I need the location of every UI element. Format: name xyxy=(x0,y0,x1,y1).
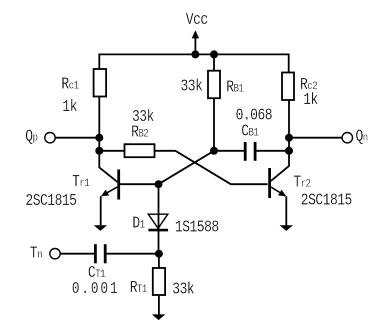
resistor Rc1 xyxy=(94,69,107,97)
wire node B to CB1 xyxy=(214,150,244,152)
terminal Qn xyxy=(342,133,352,143)
wire CB1 to Qn node xyxy=(257,150,290,152)
svg-text:2SC1815: 2SC1815 xyxy=(301,192,352,210)
transistor Tr2 xyxy=(270,168,287,198)
ground Tr1 emitter xyxy=(94,225,107,231)
svg-text:Qn: Qn xyxy=(356,128,369,146)
ground Tr2 emitter xyxy=(280,225,293,231)
terminal Tn xyxy=(50,249,60,259)
svg-text:RB2: RB2 xyxy=(131,124,148,142)
wire Rc1 bottom to Qp node xyxy=(98,97,100,151)
wire top rail xyxy=(99,54,288,72)
capacitor CB1 xyxy=(245,142,255,161)
svg-text:1k: 1k xyxy=(62,99,77,117)
svg-text:2SC1815: 2SC1815 xyxy=(25,193,76,211)
svg-text:D1: D1 xyxy=(132,215,145,233)
node RB1 top junction dot xyxy=(210,50,218,58)
svg-text:33k: 33k xyxy=(181,78,203,96)
resistor Rc2 xyxy=(282,73,294,101)
wire RB2 right diagonal to Tr2 base xyxy=(155,151,268,184)
svg-text:Qp: Qp xyxy=(25,128,38,146)
svg-text:33k: 33k xyxy=(172,281,194,299)
node Qn junction dot xyxy=(285,134,293,142)
wire RB1 top xyxy=(213,54,215,70)
svg-text:CB1: CB1 xyxy=(241,123,258,141)
svg-text:1k: 1k xyxy=(303,92,318,110)
svg-text:Tr1: Tr1 xyxy=(72,174,89,192)
wire node A to D1 xyxy=(158,184,160,230)
Vcc power arrow xyxy=(192,30,199,38)
wire Tr1 emitter to ground xyxy=(100,196,102,225)
wire Tr2 emitter to ground xyxy=(285,196,287,225)
wire Tn to CT1 xyxy=(61,253,95,255)
wire node A to node B cross-coupling xyxy=(159,151,215,184)
resistor RB2 xyxy=(125,144,155,157)
wire Rc2 bottom xyxy=(288,100,290,151)
wire Tr1 base xyxy=(120,183,159,185)
wire CT1 to node D xyxy=(107,253,159,255)
svg-text:1S1588: 1S1588 xyxy=(175,219,219,237)
svg-text:0.001: 0.001 xyxy=(72,281,120,299)
node CB1 junction dot xyxy=(285,147,293,155)
resistor RT1 xyxy=(153,268,165,295)
svg-text:Tn: Tn xyxy=(30,245,43,263)
node Qp junction dot xyxy=(95,134,103,142)
node RB2 junction dot xyxy=(95,147,103,155)
wire Qp to node xyxy=(56,137,100,139)
wire Tr1 collector xyxy=(99,151,117,182)
svg-text:RB1: RB1 xyxy=(226,79,243,97)
svg-text:Rc1: Rc1 xyxy=(61,76,78,94)
wire Tr2 collector xyxy=(271,151,289,181)
resistor RB1 xyxy=(208,71,220,99)
wire RB2 left xyxy=(99,150,124,152)
wire node D to RT1 xyxy=(158,254,160,268)
ground RT1 xyxy=(152,314,165,320)
transistor Tr1 xyxy=(101,170,119,200)
node B junction dot xyxy=(210,147,218,155)
capacitor CT1 xyxy=(95,244,105,263)
svg-text:Tr2: Tr2 xyxy=(293,174,310,192)
wire RB1 bottom to node B xyxy=(213,98,215,151)
diode D1 xyxy=(148,214,168,230)
node A junction dot xyxy=(155,180,163,188)
svg-text:Vcc: Vcc xyxy=(186,12,208,30)
node Vcc junction dot xyxy=(191,50,199,58)
wire RT1 bottom to ground xyxy=(158,295,160,315)
wire D1 cathode to node D xyxy=(158,230,160,254)
wire Qn node to terminal xyxy=(289,137,342,139)
wire Vcc stem xyxy=(194,38,196,55)
node D junction dot xyxy=(155,250,163,258)
svg-text:RT1: RT1 xyxy=(130,280,147,298)
terminal Qp xyxy=(45,133,55,143)
